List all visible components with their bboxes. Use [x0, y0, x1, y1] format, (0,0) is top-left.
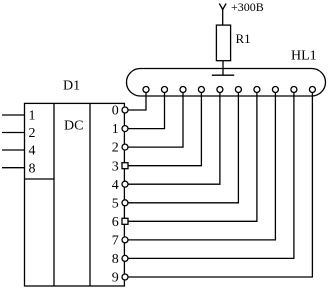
decoder internal divider left: [53, 103, 55, 286]
svg-text:HL1: HL1: [291, 49, 317, 64]
resistor R1: [216, 25, 230, 61]
output pin 4: [122, 181, 128, 187]
output pin 8: [122, 255, 128, 261]
nixie tube HL1 envelope: [127, 69, 326, 97]
decoder D1 body: [25, 103, 125, 286]
wire cathode 2: [128, 93, 183, 148]
cathode pin 3: [180, 87, 186, 93]
cathode pin 4: [198, 87, 204, 93]
terminal +300V arrow: [219, 4, 226, 26]
output pin 6: [122, 218, 128, 224]
output pin 7: [122, 237, 128, 243]
svg-text:1: 1: [29, 109, 36, 124]
svg-text:2: 2: [112, 141, 119, 156]
svg-text:1: 1: [112, 122, 119, 137]
wire cathode 3: [128, 93, 201, 166]
svg-text:8: 8: [29, 161, 36, 176]
svg-text:4: 4: [112, 178, 119, 193]
svg-text:0: 0: [112, 104, 119, 119]
input wire 8: [2, 167, 25, 169]
svg-text:9: 9: [112, 271, 119, 286]
output pin 2: [122, 144, 128, 150]
svg-text:7: 7: [112, 234, 119, 249]
wire cathode 9: [128, 93, 312, 278]
cathode pin 10: [309, 87, 315, 93]
wire cathode 5: [128, 93, 238, 203]
cathode pin 8: [272, 87, 278, 93]
svg-text:3: 3: [112, 159, 119, 174]
decoder internal divider right: [89, 103, 91, 286]
wire cathode 7: [128, 93, 275, 240]
cathode pin 9: [291, 87, 297, 93]
svg-text:2: 2: [29, 126, 36, 141]
output pin 1: [122, 126, 128, 132]
wire cathode 4: [128, 93, 220, 185]
output pin 9: [122, 274, 128, 280]
wire cathode 6: [128, 93, 257, 222]
decoder input section separator: [25, 178, 55, 180]
svg-text:+300В: +300В: [231, 0, 264, 14]
cathode pin 6: [235, 87, 241, 93]
output pin 0: [122, 107, 128, 113]
svg-text:R1: R1: [236, 31, 251, 46]
svg-text:D1: D1: [63, 79, 80, 94]
svg-text:DC: DC: [64, 119, 83, 134]
wire cathode 0: [128, 93, 146, 111]
wire cathode 8: [128, 93, 294, 259]
svg-text:6: 6: [112, 215, 119, 230]
output pin 3: [122, 163, 128, 169]
cathode pin 1: [143, 87, 149, 93]
output pin 5: [122, 200, 128, 206]
svg-text:8: 8: [112, 252, 119, 267]
input wire 2: [2, 132, 25, 134]
wire resistor to anode: [222, 61, 224, 75]
svg-text:5: 5: [112, 196, 119, 211]
svg-text:4: 4: [29, 144, 36, 159]
cathode pin 5: [217, 87, 223, 93]
wire cathode 1: [128, 93, 165, 129]
cathode pin 2: [162, 87, 168, 93]
anode electrode: [212, 74, 234, 76]
input wire 4: [2, 149, 25, 151]
cathode pin 7: [254, 87, 260, 93]
input wire 1: [2, 114, 25, 116]
